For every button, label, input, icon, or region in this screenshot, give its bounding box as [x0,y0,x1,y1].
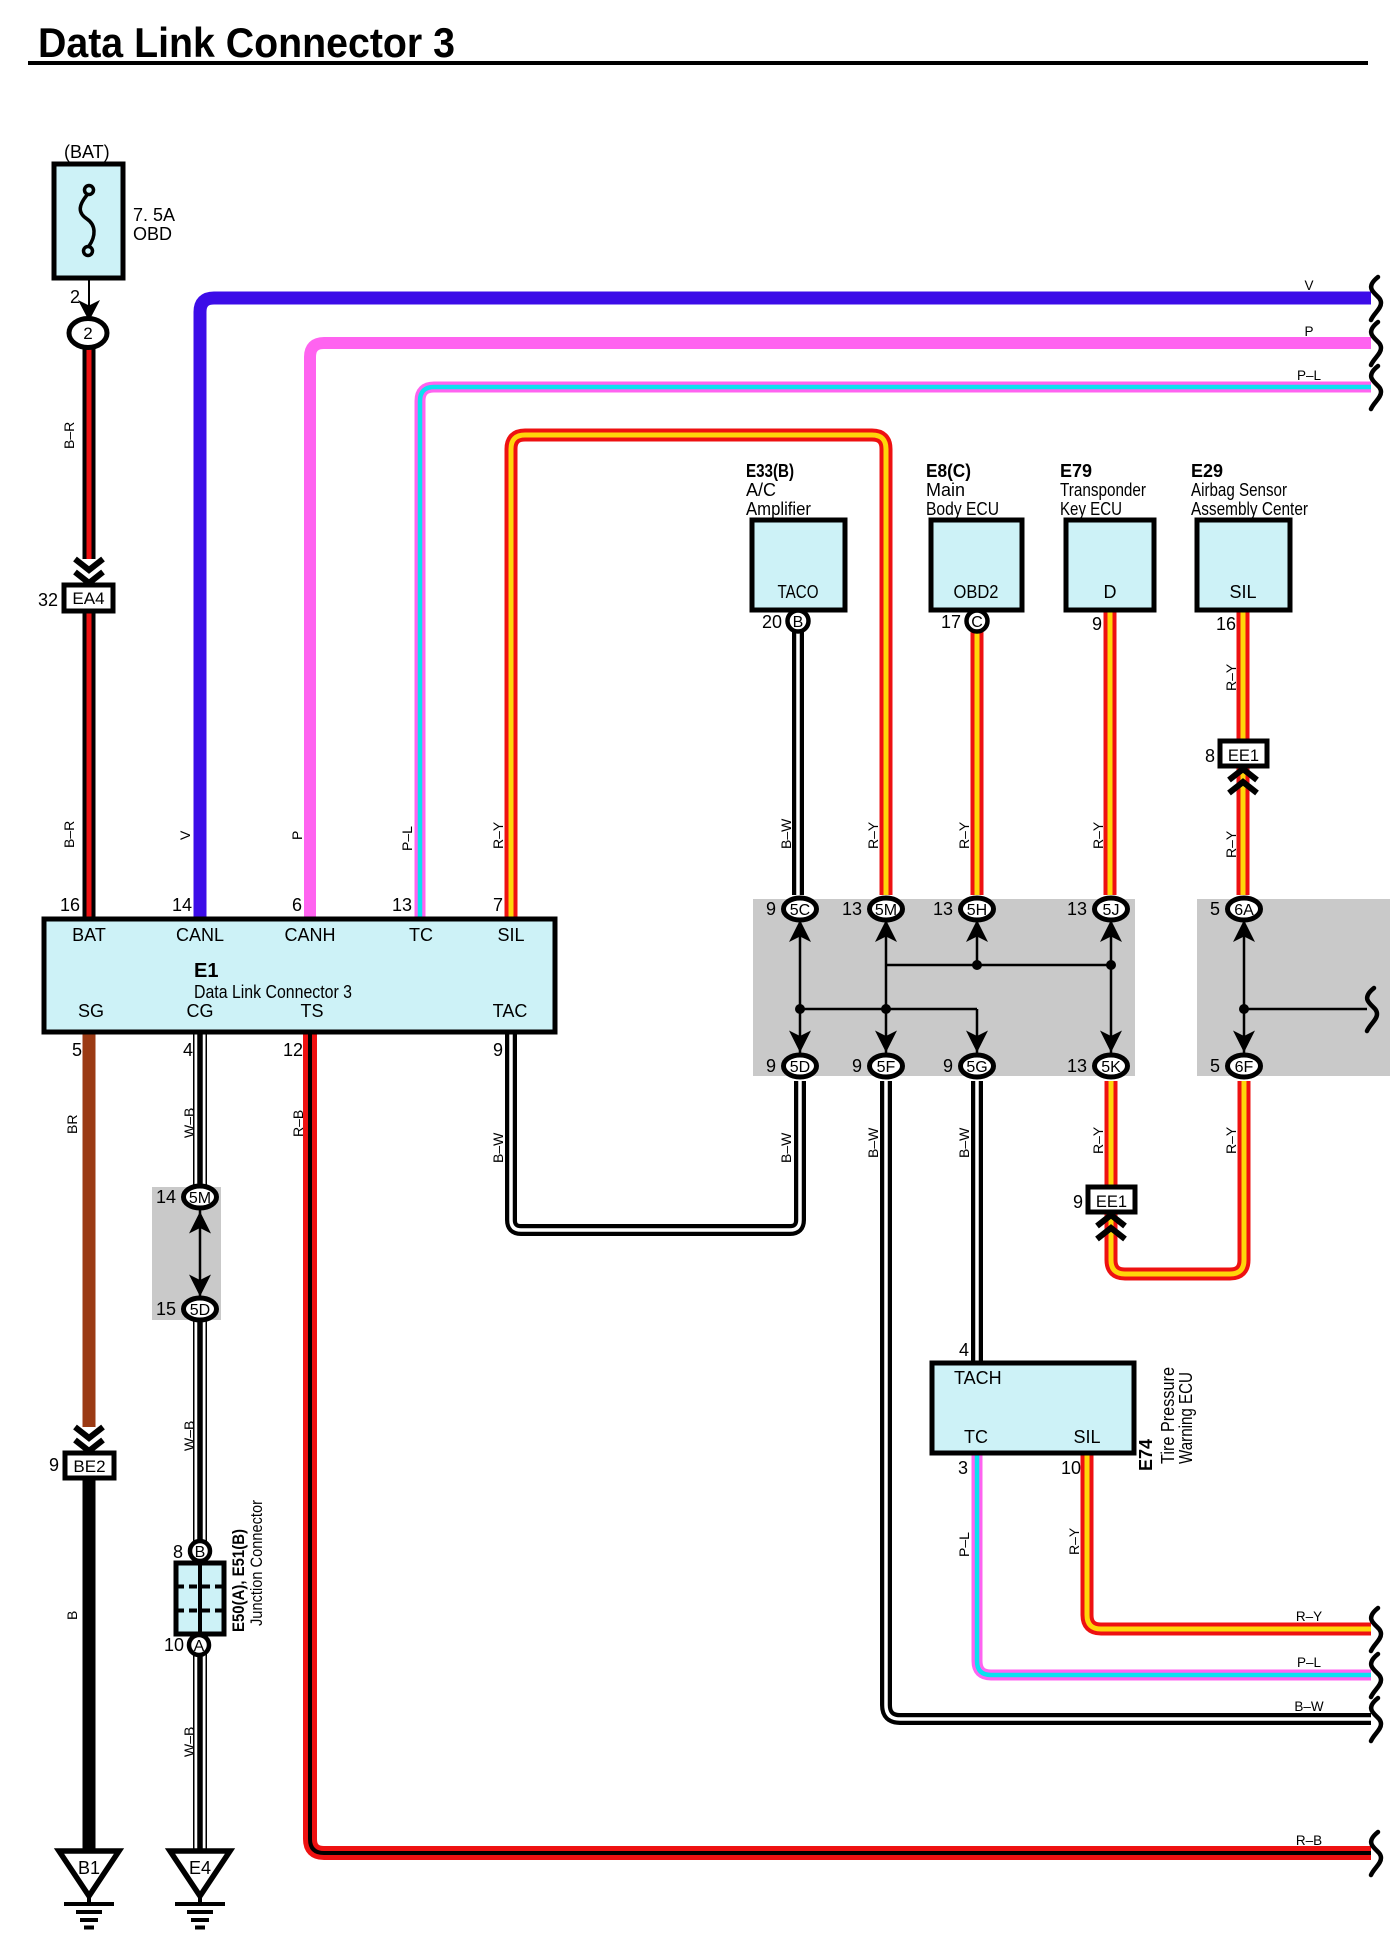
svg-text:9: 9 [766,1056,776,1076]
svg-text:W–B: W–B [181,1727,197,1757]
svg-text:12: 12 [283,1040,303,1060]
svg-text:OBD: OBD [133,224,172,244]
svg-text:B–R: B–R [61,422,77,449]
svg-text:5H: 5H [967,902,987,919]
svg-text:B1: B1 [78,1858,100,1878]
svg-text:P–L: P–L [956,1532,972,1557]
svg-text:13: 13 [842,899,862,919]
svg-text:E1: E1 [194,960,218,982]
svg-text:R–Y: R–Y [1090,821,1106,849]
svg-text:Data Link Connector 3: Data Link Connector 3 [38,19,455,66]
svg-text:Tire Pressure: Tire Pressure [1158,1367,1178,1464]
svg-text:SIL: SIL [497,925,524,945]
svg-text:5F: 5F [877,1059,896,1076]
svg-text:R–Y: R–Y [1223,1126,1239,1154]
svg-text:TACO: TACO [778,582,819,602]
svg-text:EA4: EA4 [72,589,104,608]
svg-text:5D: 5D [790,1059,810,1076]
svg-text:13: 13 [392,895,412,915]
svg-text:7: 7 [493,895,503,915]
svg-text:Amplifier: Amplifier [746,499,811,519]
svg-text:9: 9 [766,899,776,919]
svg-text:9: 9 [49,1455,59,1475]
svg-text:Key ECU: Key ECU [1060,499,1122,519]
svg-text:(BAT): (BAT) [64,142,110,162]
svg-text:13: 13 [1067,899,1087,919]
svg-text:B: B [195,1544,206,1561]
svg-text:9: 9 [1073,1192,1083,1212]
svg-text:SIL: SIL [1229,582,1256,602]
svg-text:B: B [64,1611,80,1620]
svg-text:V: V [177,830,193,840]
svg-text:20: 20 [762,612,782,632]
svg-text:7. 5A: 7. 5A [133,205,175,225]
svg-text:6A: 6A [1234,902,1254,919]
svg-text:R–B: R–B [1296,1833,1322,1848]
svg-text:5: 5 [72,1040,82,1060]
svg-text:4: 4 [959,1340,969,1360]
svg-text:9: 9 [493,1040,503,1060]
svg-text:15: 15 [156,1299,176,1319]
svg-text:13: 13 [1067,1056,1087,1076]
svg-text:8: 8 [1205,746,1215,766]
svg-text:BE2: BE2 [73,1457,105,1476]
svg-text:Junction Connector: Junction Connector [247,1500,266,1626]
svg-text:E4: E4 [189,1858,211,1878]
svg-text:B–W: B–W [778,818,794,849]
svg-text:R–B: R–B [290,1110,306,1137]
svg-text:9: 9 [852,1056,862,1076]
svg-text:5J: 5J [1103,902,1120,919]
svg-text:SIL: SIL [1073,1427,1100,1447]
svg-text:10: 10 [1061,1458,1081,1478]
svg-text:5D: 5D [190,1302,210,1319]
svg-text:16: 16 [1216,614,1236,634]
svg-text:EE1: EE1 [1228,747,1259,765]
svg-text:5K: 5K [1101,1059,1121,1076]
svg-text:Airbag Sensor: Airbag Sensor [1191,480,1287,500]
svg-text:9: 9 [1092,614,1102,634]
svg-text:14: 14 [172,895,192,915]
svg-text:B–W: B–W [956,1127,972,1158]
svg-text:8: 8 [173,1542,183,1562]
svg-text:R–Y: R–Y [1223,830,1239,858]
svg-text:17: 17 [941,612,961,632]
svg-text:E33(B): E33(B) [746,461,794,481]
svg-text:Data Link Connector 3: Data Link Connector 3 [194,982,352,1002]
svg-text:6F: 6F [1235,1059,1254,1076]
svg-text:E74: E74 [1136,1439,1156,1471]
svg-text:Transponder: Transponder [1060,480,1146,500]
svg-text:5M: 5M [875,902,897,919]
svg-text:E79: E79 [1060,461,1092,481]
svg-text:C: C [971,614,983,631]
svg-text:Assembly Center: Assembly Center [1191,499,1308,519]
svg-text:E29: E29 [1191,461,1223,481]
svg-text:SG: SG [78,1001,104,1021]
svg-text:9: 9 [943,1056,953,1076]
svg-text:OBD2: OBD2 [954,582,999,602]
svg-text:B–W: B–W [1294,1699,1324,1714]
svg-text:R–Y: R–Y [490,821,506,849]
svg-text:5C: 5C [790,902,810,919]
svg-text:P: P [1304,324,1313,339]
svg-text:A/C: A/C [746,480,776,500]
svg-text:B–R: B–R [61,821,77,848]
svg-text:R–Y: R–Y [865,821,881,849]
svg-text:B–W: B–W [778,1132,794,1163]
svg-text:Warning ECU: Warning ECU [1176,1372,1196,1464]
svg-text:R–Y: R–Y [1090,1126,1106,1154]
svg-text:5G: 5G [966,1059,987,1076]
svg-text:2: 2 [70,287,80,307]
svg-text:2: 2 [83,324,92,343]
svg-text:E8(C): E8(C) [926,461,971,481]
svg-text:E50(A), E51(B): E50(A), E51(B) [229,1529,248,1632]
svg-text:32: 32 [38,590,58,610]
svg-text:V: V [1304,278,1313,293]
svg-text:6: 6 [292,895,302,915]
svg-text:TS: TS [300,1001,323,1021]
svg-text:Main: Main [926,480,965,500]
svg-text:P–L: P–L [399,826,415,851]
svg-text:BAT: BAT [72,925,106,945]
svg-text:R–Y: R–Y [1223,663,1239,691]
svg-text:3: 3 [958,1458,968,1478]
svg-text:CANH: CANH [284,925,335,945]
svg-text:A: A [194,1638,205,1655]
svg-text:D: D [1104,582,1117,602]
svg-text:4: 4 [183,1040,193,1060]
svg-text:TC: TC [964,1427,988,1447]
svg-text:TAC: TAC [493,1001,528,1021]
svg-text:B–W: B–W [490,1132,506,1163]
svg-text:16: 16 [60,895,80,915]
svg-text:14: 14 [156,1187,176,1207]
svg-text:5M: 5M [189,1190,211,1207]
svg-text:Body ECU: Body ECU [926,499,999,519]
svg-text:TC: TC [409,925,433,945]
svg-text:W–B: W–B [181,1108,197,1138]
svg-text:R–Y: R–Y [1296,1609,1322,1624]
svg-text:CG: CG [187,1001,214,1021]
svg-text:R–Y: R–Y [956,821,972,849]
svg-text:R–Y: R–Y [1066,1527,1082,1555]
svg-text:TACH: TACH [954,1368,1002,1388]
svg-text:10: 10 [164,1635,184,1655]
svg-text:W–B: W–B [181,1421,197,1451]
svg-text:P–L: P–L [1297,368,1322,383]
svg-text:P: P [289,831,305,840]
svg-text:5: 5 [1210,1056,1220,1076]
svg-text:5: 5 [1210,899,1220,919]
svg-text:P–L: P–L [1297,1655,1322,1670]
svg-text:CANL: CANL [176,925,224,945]
svg-text:EE1: EE1 [1096,1193,1127,1211]
svg-text:B–W: B–W [865,1127,881,1158]
svg-text:BR: BR [64,1115,80,1134]
svg-text:13: 13 [933,899,953,919]
svg-text:B: B [793,614,804,631]
